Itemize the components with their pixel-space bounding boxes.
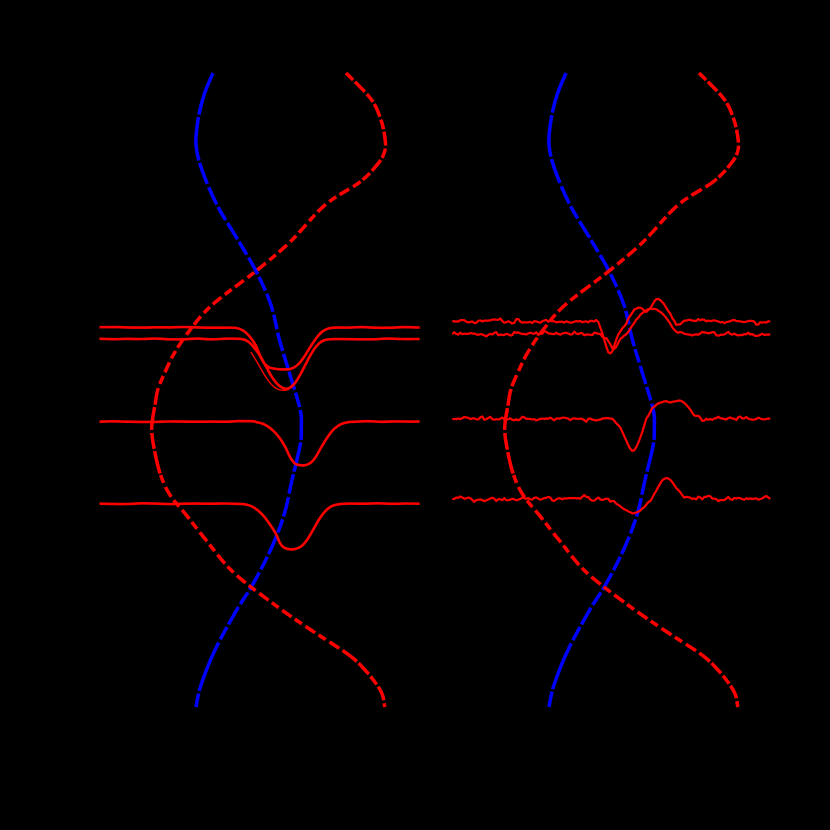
right panel secondary RV curve (red) xyxy=(699,73,739,182)
left profile 1 (upper of pair) xyxy=(100,327,420,369)
left profile 2 extra deep strand xyxy=(251,352,289,390)
left bottom profile xyxy=(100,503,420,549)
right noisy profile 1 xyxy=(452,299,770,353)
left profile 2 (lower of pair) xyxy=(100,339,420,389)
left middle profile xyxy=(100,421,420,465)
right panel primary RV curve (blue) xyxy=(549,73,566,170)
right noisy profile 2 xyxy=(452,309,770,349)
left panel primary RV curve (blue) xyxy=(196,73,213,170)
left panel secondary RV curve (red) xyxy=(346,73,386,182)
right noisy middle profile xyxy=(452,401,770,451)
right noisy bottom profile xyxy=(452,478,770,513)
